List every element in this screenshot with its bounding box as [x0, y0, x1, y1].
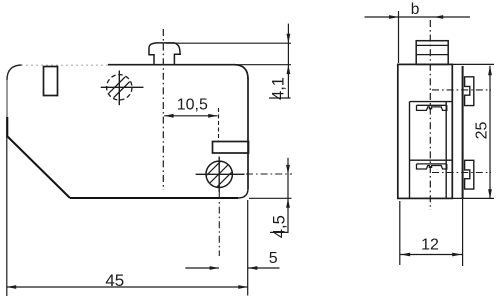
socket bracket 1 inner top line — [417, 104, 447, 106]
dimension 25 line — [489, 66, 491, 199]
socket bracket 2 — [417, 164, 447, 169]
extension line plunger top — [166, 42, 291, 44]
dimension 10,5 line — [164, 115, 217, 117]
dimension 4,1 line — [287, 24, 289, 99]
circle 2 hatch lines — [182, 148, 256, 222]
dimension 4,5 bottom arrow — [286, 198, 290, 207]
svg-text:25: 25 — [473, 122, 490, 140]
hole circle 1 (dashed) — [107, 75, 132, 100]
terminal clip 1 center line — [432, 89, 491, 91]
terminal clip 1 — [465, 77, 474, 106]
dimension b right arrow — [434, 15, 443, 19]
dimension 5 left segment — [185, 267, 219, 269]
body chamfer edge — [7, 136, 70, 198]
dimension 5 right segment — [248, 267, 280, 269]
body bottom-right corner arc — [238, 189, 248, 199]
body outline left edge lower (thick) — [6, 117, 8, 137]
dimension 4,5 shelf — [270, 231, 289, 233]
body top edge dotted part — [21, 64, 108, 66]
svg-text:4,1: 4,1 — [269, 77, 287, 100]
extension line body top right — [235, 64, 291, 66]
dimension b line — [365, 16, 471, 18]
dimension 12 right arrow — [452, 253, 461, 257]
side body outline — [398, 64, 453, 198]
dimension 4,1 bottom arrow — [287, 65, 291, 74]
dimension 4,5 line — [287, 158, 289, 233]
dimension 45 line — [7, 286, 248, 288]
terminal clip 2 center line — [432, 172, 491, 174]
extension line 45 left — [6, 136, 8, 296]
dimension 4,1 top arrow — [287, 34, 291, 43]
dimension 10,5 right arrow — [208, 114, 217, 118]
dimension 4,1 shelf — [269, 97, 291, 99]
circle 1 crosshair horizontal — [101, 86, 144, 88]
body outline left edge upper (thin) — [6, 79, 8, 118]
socket bracket 1 — [417, 105, 447, 110]
svg-text:5: 5 — [269, 250, 278, 267]
socket top line 1 — [410, 101, 453, 103]
plunger outline — [149, 43, 180, 65]
socket wall right — [445, 102, 447, 199]
svg-text:12: 12 — [421, 237, 439, 254]
dimension 4,5 top arrow — [286, 165, 290, 174]
circle 2 center line extension right — [246, 173, 292, 175]
side button cap line — [416, 44, 448, 46]
socket top line 2 — [410, 159, 453, 161]
plunger center line — [162, 29, 164, 190]
side button mid line — [416, 54, 448, 56]
slot rectangle upper-left — [44, 67, 58, 96]
dimension 12 extension right — [462, 198, 464, 266]
body top-left corner arc — [7, 65, 22, 80]
socket bracket 2 inner top line — [417, 163, 447, 165]
side body bottom edge extension right — [452, 197, 494, 199]
body right edge — [247, 78, 249, 189]
dimension 5 right arrow — [248, 266, 257, 270]
body top-right corner arc — [234, 65, 248, 79]
hole circle 2 — [206, 161, 232, 187]
dimension 5 left arrow — [210, 266, 219, 270]
dimension 12 left arrow — [401, 253, 410, 257]
side center line — [429, 20, 431, 210]
dimension 25 bottom arrow — [488, 189, 492, 198]
body bottom edge — [70, 197, 238, 199]
flange line right — [462, 66, 464, 198]
svg-text:45: 45 — [105, 271, 124, 290]
side body top edge extension right — [452, 63, 494, 65]
svg-text:4,5: 4,5 — [271, 215, 289, 238]
slot rectangle near circle 2 — [213, 142, 249, 154]
body top edge solid part — [108, 64, 235, 66]
extension line body bottom right — [249, 197, 292, 199]
socket wall left — [409, 102, 411, 199]
dimension 45 right arrow — [238, 285, 247, 289]
extension line 45 right (body right edge down) — [247, 200, 249, 296]
circle 2 crosshair vertical — [218, 157, 220, 192]
dimension 12 extension left — [399, 201, 401, 265]
circle 1 hatch lines — [95, 67, 141, 110]
svg-text:b: b — [411, 1, 420, 18]
circle 2 center line extension up (to dim 10,5) — [218, 108, 220, 141]
circle 2 center line extension down — [218, 192, 220, 256]
circle 1 crosshair vertical — [118, 71, 120, 106]
svg-text:10,5: 10,5 — [177, 97, 208, 114]
dimension b left arrow — [389, 15, 398, 19]
circle 2 crosshair horizontal — [196, 173, 245, 175]
dimension 12 line — [400, 254, 463, 256]
terminal clip 2 — [465, 160, 474, 189]
side button outline — [416, 41, 448, 65]
dimension 10,5 left arrow — [164, 114, 173, 118]
dimension b extension line — [398, 11, 400, 63]
dimension 25 top arrow — [488, 66, 492, 75]
dimension 45 left arrow — [7, 285, 16, 289]
